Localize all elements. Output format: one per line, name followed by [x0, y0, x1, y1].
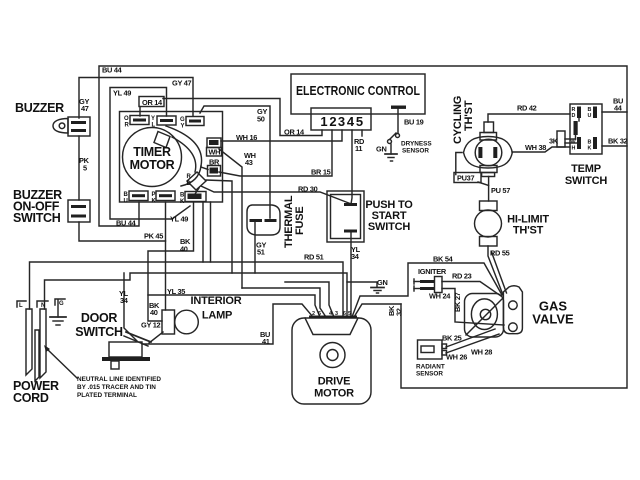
svg-text:R: R: [187, 174, 192, 180]
svg-text:6: 6: [318, 311, 321, 317]
svg-text:H: H: [572, 146, 576, 152]
svg-text:32: 32: [395, 308, 404, 316]
timer cam diamond 1: [154, 132, 170, 148]
svg-text:5: 5: [348, 311, 351, 317]
svg-text:R: R: [125, 123, 130, 129]
wire into drive motor terminal: [285, 282, 334, 317]
svg-text:BU 44: BU 44: [116, 219, 137, 228]
timer terminal YL: [157, 116, 176, 125]
buzzer B1: [53, 119, 68, 134]
svg-text:SWITCH: SWITCH: [13, 211, 61, 225]
hi-limit thermostat: [480, 201, 498, 211]
svg-text:3: 3: [335, 311, 338, 317]
timer terminal PK: [156, 191, 175, 201]
svg-text:WH 24: WH 24: [429, 292, 451, 301]
buzzer on-off switch S1: [68, 200, 90, 222]
svg-text:11: 11: [355, 144, 362, 153]
wire RD11 from control pin 4 down to push-to-start switch: [351, 130, 352, 204]
wire GY51 thermal fuse to rail: [254, 222, 256, 273]
control pin 5 stub: [361, 130, 363, 136]
svg-text:RD 55: RD 55: [490, 249, 510, 258]
svg-text:P: P: [152, 192, 156, 198]
svg-text:YL 35: YL 35: [167, 287, 185, 296]
svg-text:BK 25: BK 25: [442, 334, 462, 343]
svg-text:44: 44: [614, 104, 623, 113]
svg-text:BY .015 TRACER AND TIN: BY .015 TRACER AND TIN: [77, 384, 156, 391]
label PU37 boxed: [454, 173, 481, 183]
svg-text:3: 3: [338, 114, 345, 129]
svg-text:NEUTRAL LINE IDENTIFIED: NEUTRAL LINE IDENTIFIED: [77, 376, 161, 383]
svg-text:BK 27: BK 27: [453, 292, 462, 312]
svg-text:PLATED TERMINAL: PLATED TERMINAL: [77, 392, 137, 399]
svg-text:6: 6: [343, 311, 346, 317]
svg-text:WH: WH: [209, 148, 221, 157]
svg-text:RD 42: RD 42: [517, 104, 537, 113]
timer motor circle: [123, 128, 182, 187]
svg-text:L: L: [19, 303, 23, 309]
wire to PU37 label: [456, 153, 462, 175]
svg-text:GN: GN: [377, 278, 388, 287]
timer terminal BK: [185, 192, 206, 202]
svg-text:BK 54: BK 54: [433, 255, 454, 264]
svg-text:RD 51: RD 51: [304, 253, 324, 262]
wire PU57 cycling to hi-limit: [488, 177, 490, 202]
svg-text:B: B: [124, 192, 129, 198]
svg-text:N: N: [41, 303, 45, 309]
interior lamp: [162, 310, 175, 334]
wire PK5 buzzer to on-off switch: [78, 136, 80, 200]
wire WH26 radiant sensor to gas valve: [446, 334, 499, 353]
svg-text:BU 44: BU 44: [102, 66, 123, 75]
svg-text:INTERIOR: INTERIOR: [191, 295, 242, 307]
wire GY47 from buzzer up over to timer terminal GY: [79, 78, 193, 119]
svg-text:TEMP: TEMP: [571, 163, 601, 175]
neutral note arrow: [46, 348, 77, 378]
svg-text:BR 15: BR 15: [311, 168, 331, 177]
svg-text:43: 43: [245, 158, 253, 167]
svg-text:40: 40: [150, 308, 158, 317]
svg-text:G: G: [59, 301, 64, 307]
svg-text:MOTOR: MOTOR: [314, 388, 354, 400]
svg-text:B: B: [180, 193, 185, 199]
cycling thermostat: [484, 122, 494, 133]
wire YL34 from push-to-start switch down to motor terminal: [350, 232, 352, 317]
electronic control terminal bar: [391, 106, 406, 109]
wire from timer box bottom to line rail: [202, 202, 204, 262]
svg-text:Y: Y: [151, 116, 155, 122]
svg-text:4: 4: [347, 114, 355, 129]
wire N rail from power cord to drive motor: [45, 273, 348, 317]
svg-text:VALVE: VALVE: [532, 312, 574, 327]
svg-text:DRYNESS: DRYNESS: [401, 141, 432, 148]
svg-text:SWITCH: SWITCH: [368, 221, 410, 233]
svg-text:YL 49: YL 49: [170, 215, 188, 224]
svg-text:U: U: [124, 199, 128, 205]
svg-text:PU37: PU37: [457, 174, 474, 183]
radiant sensor: [418, 340, 443, 359]
svg-text:47: 47: [81, 104, 89, 113]
svg-text:GN: GN: [376, 145, 387, 154]
svg-text:41: 41: [262, 337, 270, 346]
svg-text:34: 34: [120, 296, 129, 305]
timer WH connector: [207, 138, 221, 148]
temp switch: [570, 104, 602, 154]
svg-text:IGNITER: IGNITER: [418, 267, 447, 276]
svg-text:SWITCH: SWITCH: [75, 325, 123, 339]
svg-text:U: U: [588, 113, 592, 119]
wire WH16 from timer WH connector to control pin 3: [221, 130, 342, 141]
svg-text:RD 23: RD 23: [452, 272, 472, 281]
svg-text:PK 45: PK 45: [144, 232, 163, 241]
wire RD23 igniter to gas valve: [442, 282, 501, 297]
wire BK25 radiant sensor to gas valve: [446, 329, 495, 347]
wire RD42 cycling thermostat to temp switch: [488, 114, 570, 122]
svg-text:5: 5: [83, 164, 87, 173]
svg-text:ELECTRONIC CONTROL: ELECTRONIC CONTROL: [296, 83, 420, 98]
svg-text:WH 38: WH 38: [525, 143, 546, 152]
svg-text:D: D: [572, 113, 576, 119]
svg-text:K: K: [152, 199, 157, 205]
svg-text:D: D: [187, 181, 192, 187]
svg-text:BK 32: BK 32: [608, 137, 628, 146]
wire GY12 lamp socket to door switch: [149, 332, 163, 343]
wire BU44 outer loop (timer BU terminal, left edge, top edge, right edge, bottom of gas valve loop): [99, 66, 627, 388]
wire PK45 from on-off switch to junction and lamp: [79, 222, 166, 241]
svg-text:K: K: [588, 146, 592, 152]
timer terminal BU: [129, 191, 148, 201]
svg-text:2: 2: [329, 114, 336, 129]
svg-text:50: 50: [257, 115, 265, 124]
svg-text:SENSOR: SENSOR: [402, 148, 429, 155]
wire BK32 temp switch to right edge: [602, 145, 627, 147]
wire L rail from power cord to drive motor: [30, 262, 344, 317]
svg-text:PU 57: PU 57: [491, 186, 510, 195]
resistor 3K: [578, 118, 580, 121]
svg-text:BUZZER: BUZZER: [15, 101, 64, 115]
door switch: [109, 342, 142, 357]
timer RD diamond 2: [187, 172, 206, 190]
svg-text:TIMER: TIMER: [133, 145, 171, 159]
svg-text:O: O: [124, 116, 129, 122]
svg-text:L: L: [152, 123, 156, 129]
svg-text:FUSE: FUSE: [294, 206, 306, 235]
wire BU44 temp switch to right edge: [602, 111, 627, 113]
svg-text:YL 49: YL 49: [113, 89, 131, 98]
wire BK54 from motor terminal to igniter feed: [352, 263, 502, 317]
wire WH43 from timer WH connector down: [219, 149, 242, 288]
thermal fuse F1: [247, 205, 280, 235]
wire BR15 from timer BR connector to control pin 2: [219, 130, 332, 176]
wire BU19 electronic control to dryness sensor: [397, 109, 399, 133]
power cord prongs: [26, 309, 32, 375]
svg-text:BU 19: BU 19: [404, 118, 424, 127]
svg-text:WH 26: WH 26: [446, 353, 467, 362]
drive motor M1: [292, 318, 371, 404]
wire from timer RD diamond down to rail: [206, 180, 232, 273]
timer terminal OR: [130, 116, 149, 125]
svg-text:34: 34: [351, 252, 360, 261]
dryness sensor contacts: [396, 134, 400, 138]
dryness ground symbol: [390, 144, 392, 154]
timer cam lens: [166, 126, 202, 166]
svg-text:LAMP: LAMP: [202, 310, 232, 322]
svg-text:40: 40: [180, 245, 188, 254]
wire BK40 from timer BK terminal down to interior lamp: [148, 202, 194, 321]
door switch lever: [126, 332, 151, 342]
wire BU41 from door switch to drive motor: [142, 304, 313, 344]
wire YL35 line from door area to drive motor: [148, 295, 320, 317]
label OR 14 boxed: [139, 97, 164, 107]
svg-text:5: 5: [356, 114, 363, 129]
svg-text:WH 28: WH 28: [471, 348, 492, 357]
svg-text:K: K: [180, 199, 185, 205]
timer terminal GY: [186, 117, 204, 126]
wire BK32 diagonal from loop to drive motor terminal: [354, 304, 401, 317]
svg-text:DOOR: DOOR: [81, 311, 118, 325]
svg-text:TH'ST: TH'ST: [463, 100, 475, 131]
push to start switch S2: [327, 191, 364, 242]
gas valve: [465, 294, 504, 338]
wire WH43 run to drive motor: [242, 288, 326, 317]
wire RD55 hi-limit to gas valve (double): [488, 246, 503, 295]
svg-text:OR 14: OR 14: [284, 128, 305, 137]
svg-text:G: G: [180, 117, 185, 123]
svg-text:DRIVE: DRIVE: [318, 376, 351, 388]
connector 1 2 3 4 5: [311, 108, 371, 130]
wire BK27 igniter to gas valve bottom: [442, 289, 504, 326]
power cord ground symbol: [57, 300, 59, 317]
timer assembly box: [120, 112, 223, 203]
svg-text:OR 14: OR 14: [142, 98, 163, 107]
svg-text:CORD: CORD: [13, 391, 49, 405]
wire RD30 from timer RD diamond to push-to-start switch: [201, 186, 350, 204]
svg-text:4: 4: [329, 311, 332, 317]
svg-text:TH'ST: TH'ST: [513, 225, 544, 237]
svg-text:1: 1: [320, 114, 327, 129]
wire from timer box bottom to line rail 2: [210, 202, 212, 262]
svg-text:Y: Y: [181, 124, 185, 130]
wire WH38 cycling thermostat to temp switch: [512, 147, 570, 152]
wire YL34 from rail down to door switch: [124, 273, 137, 341]
wire YL49 loop from timer YL terminal around left to bottom diagonal: [110, 88, 190, 220]
svg-text:WH 16: WH 16: [236, 133, 257, 142]
electronic control U1: [291, 74, 425, 114]
svg-text:SENSOR: SENSOR: [416, 371, 443, 378]
wire GY50 from timer GY terminal to thermal fuse: [200, 106, 270, 218]
svg-text:51: 51: [257, 248, 265, 257]
svg-text:GY 47: GY 47: [172, 79, 192, 88]
svg-text:MOTOR: MOTOR: [130, 158, 175, 172]
svg-text:SWITCH: SWITCH: [565, 175, 607, 187]
svg-text:2: 2: [312, 311, 315, 317]
svg-text:RADIANT: RADIANT: [416, 364, 445, 371]
svg-text:RD 30: RD 30: [298, 185, 318, 194]
wire GN tap to ground near drive motor: [347, 282, 377, 287]
svg-text:3K: 3K: [549, 137, 559, 146]
wire PK45 vertical timer PK terminal down to interior lamp: [165, 202, 167, 310]
ground symbol near motor: [371, 287, 384, 289]
svg-text:GY 12: GY 12: [141, 321, 161, 330]
wire OR14 from timer OR terminal to electronic control pin 1: [139, 107, 141, 116]
